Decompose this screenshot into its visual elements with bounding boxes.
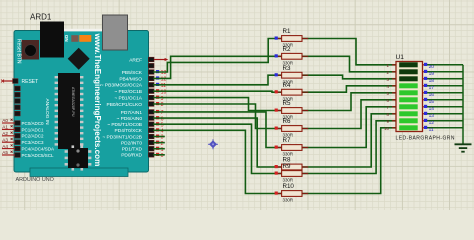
svg-text:13: 13: [161, 70, 167, 76]
resistor R9: [275, 171, 309, 177]
svg-text:13: 13: [429, 113, 435, 119]
unused header pin box (below AREF): [148, 63, 154, 68]
wire R3 to bargraph pin 3: [302, 75, 396, 79]
bargraph pin number 4: [387, 84, 390, 89]
svg-text:2: 2: [161, 141, 164, 147]
svg-text:PC1/ADC1: PC1/ADC1: [22, 127, 45, 132]
svg-text:PD4/T0/XCK: PD4/T0/XCK: [115, 128, 143, 134]
wire ground bus vertical: [462, 65, 464, 144]
wire stub pin2: [154, 142, 164, 144]
bargraph pin 6 stub: [392, 99, 396, 101]
bargraph pin 14 stub: [423, 106, 428, 108]
pin 12 connector box: [148, 76, 154, 81]
pin number 2: [161, 141, 164, 147]
wire R9 to bargraph pin 9: [302, 121, 396, 174]
bargraph LED segment 8: [399, 111, 418, 116]
bargraph LED segment 3: [399, 76, 418, 81]
wire R7 to bargraph pin 7: [302, 107, 396, 148]
bargraph LED segment 7: [399, 104, 418, 109]
bargraph pin 17 stub: [423, 85, 428, 87]
pin 1 label: [122, 147, 143, 153]
wire pin13 to R1: [154, 39, 282, 73]
svg-text:19: 19: [429, 71, 435, 77]
pin 13 state indicator: [156, 70, 159, 73]
resistor R7 name label: [283, 137, 291, 144]
resistor R8 name label: [283, 157, 291, 164]
analog pin A5 board label: [22, 153, 55, 158]
terminal A3 wire (red): [2, 141, 15, 143]
resistor R8: [275, 164, 309, 170]
pin 13 label: [122, 70, 143, 76]
bargraph pin number 17: [429, 85, 435, 91]
svg-text:11: 11: [161, 83, 166, 89]
pin 7 label: [121, 110, 143, 116]
origin marker (sheet cursor): [208, 139, 218, 149]
bargraph pin 20 stub: [423, 64, 428, 66]
wire bargraph pin 16 to ground bus: [427, 92, 463, 94]
pin 9 connector box: [148, 95, 154, 100]
power header pin box 1: [15, 86, 20, 91]
svg-text:A3: A3: [2, 137, 8, 142]
resistor R1: [275, 36, 309, 42]
wire pin12 to R2: [154, 56, 282, 78]
USB connector: [103, 15, 128, 50]
svg-text:A5: A5: [2, 150, 8, 155]
svg-text:AREF: AREF: [129, 58, 142, 64]
bargraph pin 11 state indicator: [424, 126, 427, 129]
svg-text:R9: R9: [283, 163, 291, 170]
svg-text:PD7/AIN1: PD7/AIN1: [121, 110, 143, 116]
pin 7 state indicator: [156, 110, 159, 113]
svg-text:1: 1: [161, 147, 164, 153]
pin AREF connector box: [148, 57, 154, 62]
resistor R4 name label: [283, 82, 291, 89]
bargraph pin number 13: [429, 113, 435, 119]
svg-text:PD0/RXD: PD0/RXD: [121, 153, 142, 159]
resistor R7: [275, 145, 309, 151]
svg-text:~ PB1/OC1A: ~ PB1/OC1A: [114, 96, 142, 102]
crystal (diamond): [68, 48, 90, 70]
svg-text:~ PB3/MOSI/OC2A: ~ PB3/MOSI/OC2A: [101, 83, 143, 89]
pin 10 label: [114, 89, 142, 95]
svg-text:R3: R3: [283, 65, 291, 72]
bargraph pin 16 state indicator: [424, 91, 427, 94]
bargraph pin 19 stub: [423, 71, 428, 73]
terminal A1 label: [2, 125, 12, 130]
bargraph pin 11 stub: [423, 127, 428, 129]
analog pin A1 board label: [22, 127, 45, 132]
analog pin A0 connector box: [15, 121, 20, 126]
resistor R2 name label: [283, 46, 291, 53]
ground symbol: [455, 144, 472, 151]
bargraph pin 2 stub: [392, 71, 396, 73]
LED bargraph U1 body: [396, 62, 423, 132]
analog pin A2 board label: [22, 134, 45, 139]
bargraph LED segment 10: [399, 125, 418, 130]
svg-text:LED-BARGRAPH-GRN: LED-BARGRAPH-GRN: [396, 136, 455, 142]
pin 5 label: [107, 122, 142, 128]
bargraph pin number 10: [384, 126, 389, 131]
bargraph pin 10 stub: [392, 127, 396, 129]
svg-text:20: 20: [429, 64, 435, 70]
bargraph pin 13 state indicator: [424, 112, 427, 115]
svg-text:PC2/ADC2: PC2/ADC2: [22, 134, 45, 139]
bargraph pin number 1: [387, 63, 390, 68]
resistor R6: [275, 126, 309, 132]
svg-text:~ PD6/AIN0: ~ PD6/AIN0: [117, 116, 143, 122]
resistor R5 name label: [283, 100, 291, 107]
pin 12 state indicator: [156, 76, 159, 79]
pin 3 state indicator: [156, 135, 159, 138]
terminal A5 label: [2, 150, 12, 155]
svg-text:~ PD3/INT1/OC2B: ~ PD3/INT1/OC2B: [102, 134, 142, 140]
bargraph pin 15 stub: [423, 99, 428, 101]
wire stub pin1: [154, 148, 164, 150]
bargraph pin number 8: [387, 112, 390, 117]
pin 8 state indicator: [156, 102, 159, 105]
pin number 6: [161, 116, 164, 122]
pin 10 state indicator: [156, 89, 159, 92]
bargraph pin number 20: [429, 64, 435, 70]
svg-text:~ PD5/T1/OC0B: ~ PD5/T1/OC0B: [107, 122, 142, 128]
resistor R9 value label 330R: [283, 178, 294, 183]
bargraph LED segment 6: [399, 97, 418, 102]
svg-text:PB4/MISO: PB4/MISO: [119, 76, 142, 82]
pin 0 label: [121, 153, 142, 159]
wire stub pin0: [154, 154, 164, 156]
wire bargraph pin 17 to ground bus: [427, 85, 463, 87]
wire pin9 to R5: [154, 98, 282, 111]
wire bargraph pin 12 to ground bus: [427, 120, 463, 122]
svg-text:5: 5: [161, 122, 164, 128]
pin 11 state indicator: [156, 83, 159, 86]
resistor R6 value label 330R: [283, 133, 294, 138]
resistor R5 value label 330R: [283, 115, 294, 120]
pin number 9: [161, 96, 164, 102]
wire bargraph pin 20 to ground bus: [427, 64, 463, 66]
ARDUINO UNO silk label: [16, 177, 54, 183]
bargraph pin number 16: [429, 92, 435, 98]
pin 0 connector box: [148, 153, 154, 158]
bargraph pin 13 stub: [423, 113, 428, 115]
power jack: [40, 22, 64, 58]
svg-text:10: 10: [384, 126, 389, 131]
svg-text:R10: R10: [283, 183, 295, 190]
svg-text:A2: A2: [2, 131, 8, 136]
pin RESET label: [22, 79, 39, 85]
svg-text:11: 11: [429, 127, 434, 133]
svg-text:PC4/ADC4/SDA: PC4/ADC4/SDA: [22, 147, 55, 152]
pin number 10: [161, 89, 167, 95]
resistor R1 name label: [283, 28, 291, 35]
bargraph pin number 5: [387, 91, 390, 96]
svg-text:3: 3: [161, 135, 164, 141]
pin number 12: [161, 77, 167, 83]
bargraph pin 14 state indicator: [424, 105, 427, 108]
analog pin A2 connector box: [15, 134, 20, 139]
terminal A2 label: [2, 131, 12, 136]
resistor R4 value label 330R: [283, 96, 294, 101]
bargraph pin number 19: [429, 71, 435, 77]
terminal A4 wire (red): [2, 148, 15, 150]
resistor R10: [275, 191, 309, 197]
terminal A2 wire (red): [2, 135, 15, 137]
wire R8 to bargraph pin 8: [302, 114, 396, 167]
svg-text:PB5/SCK: PB5/SCK: [122, 70, 143, 76]
pin 4 connector box: [148, 128, 154, 133]
svg-text:PC5/ADC5/SCL: PC5/ADC5/SCL: [22, 153, 55, 158]
wire R5 to bargraph pin 5: [302, 93, 396, 111]
svg-text:6: 6: [161, 116, 164, 122]
analog pin A4 board label: [22, 147, 55, 152]
bargraph pin 12 stub: [423, 120, 428, 122]
wire pin10 to R4: [154, 91, 282, 92]
svg-text:17: 17: [429, 85, 435, 91]
bargraph pin number 15: [429, 99, 435, 105]
svg-text:14: 14: [429, 106, 435, 112]
Arduino Uno module ARD1 body: [14, 29, 149, 177]
analog pin A1 connector box: [15, 127, 20, 132]
wire bargraph pin 13 to ground bus: [427, 113, 463, 115]
resistor R3: [275, 72, 309, 78]
svg-text:4: 4: [161, 129, 164, 135]
bargraph pin number 7: [387, 105, 390, 110]
svg-text:PC0/ADC0: PC0/ADC0: [22, 121, 45, 126]
bargraph pin number 12: [429, 120, 435, 126]
svg-text:R7: R7: [283, 137, 291, 144]
svg-text:330R: 330R: [283, 178, 294, 183]
bargraph pin number 18: [429, 78, 435, 84]
power header pin box 3: [15, 99, 20, 104]
wire R6 to bargraph pin 6: [302, 100, 396, 129]
svg-text:R1: R1: [283, 28, 291, 35]
svg-text:PC3/ADC3: PC3/ADC3: [22, 140, 45, 145]
svg-text:PD2/INT0: PD2/INT0: [121, 141, 142, 147]
wire pin4 to R10: [154, 130, 282, 193]
pin 2 connector box: [148, 140, 154, 145]
pin 9 state indicator: [156, 96, 159, 99]
pin 1 connector box: [148, 146, 154, 151]
svg-text:15: 15: [429, 99, 435, 105]
bargraph pin number 2: [387, 70, 390, 75]
pin 2 label: [121, 141, 142, 147]
resistor R4: [275, 89, 309, 95]
bargraph pin 19 state indicator: [424, 70, 427, 73]
wire pin6 to R8: [154, 118, 282, 167]
bargraph pin 8 stub: [392, 113, 396, 115]
svg-text:12: 12: [429, 120, 435, 126]
pin 1 state indicator: [156, 147, 159, 150]
bargraph LED segment 4: [399, 83, 418, 88]
square IC (ATmega16U2): [65, 145, 92, 170]
svg-text:R5: R5: [283, 100, 291, 107]
pin number 5: [161, 122, 164, 128]
svg-text:12: 12: [161, 77, 167, 83]
svg-text:R4: R4: [283, 82, 291, 89]
bargraph pin 3 stub: [392, 78, 396, 80]
svg-text:www.TheEngineeringProjects.com: www.TheEngineeringProjects.com: [93, 33, 102, 167]
terminal RESET wire (red): [1, 80, 13, 83]
wire R10 to bargraph pin 10: [302, 128, 396, 194]
wire R2 to bargraph pin 2: [302, 56, 396, 72]
svg-text:A0: A0: [2, 118, 8, 123]
svg-text:ON: ON: [64, 35, 69, 43]
TheEngineeringProjects silk text: [93, 33, 102, 167]
svg-text:~ PB2/OC1B: ~ PB2/OC1B: [114, 89, 142, 95]
bargraph pin 17 state indicator: [424, 84, 427, 87]
LED bargraph U1 reference label: [396, 54, 405, 61]
bargraph pin number 3: [387, 77, 390, 82]
pin 8 connector box: [148, 102, 154, 107]
power LED indicator: [71, 35, 91, 42]
svg-text:PD1/TXD: PD1/TXD: [122, 147, 143, 153]
power header pin box 2: [15, 92, 20, 97]
svg-text:A4: A4: [2, 144, 8, 149]
pin number 3: [161, 135, 164, 141]
bargraph part-number label: [396, 136, 455, 142]
pin 11 connector box: [148, 83, 154, 88]
bargraph pin 20 state indicator: [424, 63, 427, 66]
pin number 13: [161, 70, 167, 76]
resistor R1 value label 330R: [283, 43, 294, 48]
bargraph pin 9 stub: [392, 120, 396, 122]
svg-text:ANALOG IN: ANALOG IN: [44, 99, 50, 126]
resistor R10 name label: [283, 183, 295, 190]
wire bargraph pin 18 to ground bus: [427, 78, 463, 80]
wire AREF stub (red, open arrow): [154, 58, 168, 61]
ATmega328 chip U-ARD: [55, 73, 84, 149]
pin 11 label: [101, 83, 143, 89]
analog pin A0 board label: [22, 121, 45, 126]
pin 5 connector box: [148, 122, 154, 127]
bargraph pin 7 stub: [392, 106, 396, 108]
pin 4 label: [115, 128, 143, 134]
wire pin5 to R9: [154, 124, 282, 173]
pin 10 connector box: [148, 89, 154, 94]
bargraph LED segment 2: [399, 69, 418, 74]
pin 9 label: [114, 96, 142, 102]
Reset BTN silk label: [16, 39, 22, 64]
terminal A3 label: [2, 137, 12, 142]
pin number 7: [161, 110, 164, 116]
pin 5 state indicator: [156, 122, 159, 125]
svg-text:A1: A1: [2, 125, 8, 130]
wire bargraph pin 15 to ground bus: [427, 99, 463, 101]
bargraph LED segment 9: [399, 118, 418, 123]
power header pin box 5: [15, 111, 20, 116]
pin 3 label: [102, 134, 142, 140]
pin 6 label: [117, 116, 143, 122]
terminal A4 label: [2, 144, 12, 149]
pin number 4: [161, 129, 164, 135]
svg-text:ARDUINO UNO: ARDUINO UNO: [16, 177, 54, 183]
bargraph pin number 14: [429, 106, 435, 112]
svg-text:R6: R6: [283, 118, 291, 125]
terminal A0 wire (red): [2, 122, 15, 124]
resistor R10 value label 330R: [283, 198, 294, 203]
pin 0 state indicator: [156, 153, 159, 156]
bargraph pin 5 stub: [392, 92, 396, 94]
wire pin11 to R3: [154, 75, 282, 85]
analog pin A3 connector box: [15, 140, 20, 145]
svg-text:0: 0: [161, 153, 164, 159]
svg-text:Reset BTN: Reset BTN: [16, 39, 22, 64]
pin AREF label: [129, 58, 142, 64]
svg-text:R2: R2: [283, 46, 291, 53]
pin number 11: [161, 83, 166, 89]
svg-text:ATMEGA328P-PU: ATMEGA328P-PU: [71, 87, 75, 117]
resistor R6 name label: [283, 118, 291, 125]
resistor R2: [275, 53, 309, 59]
resistor R5: [275, 108, 309, 114]
pin 4 state indicator: [156, 128, 159, 131]
bargraph pin 4 stub: [392, 85, 396, 87]
bargraph LED segment 5: [399, 90, 418, 95]
resistor R8 value label 330R: [283, 171, 294, 176]
wire bargraph pin 11 to ground bus: [427, 127, 463, 129]
pin number 1: [161, 147, 164, 153]
bargraph pin 1 stub: [392, 64, 396, 66]
bargraph pin 18 state indicator: [424, 77, 427, 80]
bargraph pin number 6: [387, 98, 390, 103]
bargraph pin number 9: [387, 119, 390, 124]
ON label: [64, 35, 69, 43]
reset button: [22, 40, 40, 60]
wire R4 to bargraph pin 4: [302, 86, 396, 92]
wire pin7 to R7: [154, 112, 282, 148]
analog pin A4 connector box: [15, 146, 20, 151]
bargraph pin 12 state indicator: [424, 119, 427, 122]
svg-text:U1: U1: [396, 54, 405, 61]
bargraph pin 18 stub: [423, 78, 428, 80]
pin 6 state indicator: [156, 116, 159, 119]
pin number 8: [161, 102, 164, 108]
svg-text:RESET: RESET: [22, 79, 39, 85]
wire bargraph pin 14 to ground bus: [427, 106, 463, 108]
wire bargraph pin 19 to ground bus: [427, 71, 463, 73]
svg-text:16: 16: [429, 92, 435, 98]
resistor R3 name label: [283, 65, 291, 72]
terminal A5 wire (red): [2, 154, 15, 156]
ARD1 reference label: [30, 13, 52, 22]
resistor R9 name label: [283, 163, 291, 170]
svg-text:8: 8: [161, 102, 164, 108]
bargraph pin 16 stub: [423, 92, 428, 94]
pin 7 connector box: [148, 110, 154, 115]
svg-text:PB0/ICP1/CLKO: PB0/ICP1/CLKO: [107, 102, 143, 108]
pin 2 state indicator: [156, 141, 159, 144]
pin number 0: [161, 153, 164, 159]
wire pin8 to R6: [154, 104, 282, 129]
wire R1 to bargraph pin 1: [302, 39, 396, 65]
svg-text:18: 18: [429, 78, 435, 84]
svg-text:330R: 330R: [283, 198, 294, 203]
terminal A0 label: [2, 118, 12, 123]
wire stub pin3: [154, 136, 164, 138]
svg-text:ARD1: ARD1: [30, 13, 52, 22]
resistor R2 value label 330R: [283, 61, 294, 66]
resistor R7 value label 330R: [283, 152, 294, 157]
ANALOG IN silk label: [44, 99, 50, 126]
svg-text:7: 7: [161, 110, 164, 116]
pin 6 connector box: [148, 116, 154, 121]
pin 12 label: [119, 76, 142, 82]
resistor R3 value label 330R: [283, 79, 294, 84]
terminal A1 wire (red): [2, 128, 15, 130]
pin 13 connector box: [148, 70, 154, 75]
svg-text:9: 9: [161, 96, 164, 102]
power header pin box 4: [15, 105, 20, 110]
